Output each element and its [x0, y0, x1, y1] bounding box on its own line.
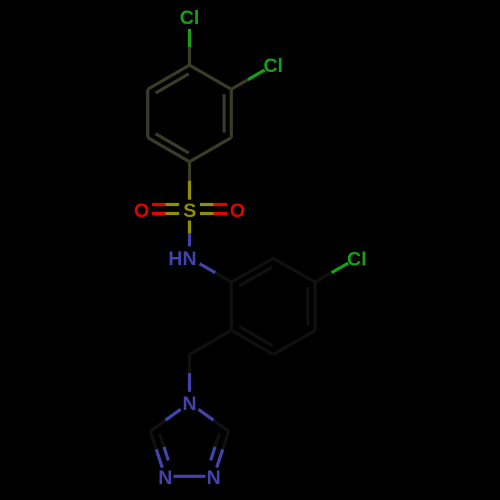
svg-text:Cl: Cl — [263, 55, 283, 77]
svg-text:N: N — [182, 393, 196, 415]
svg-text:HN: HN — [168, 248, 196, 270]
svg-text:N: N — [207, 467, 221, 489]
svg-text:N: N — [158, 467, 172, 489]
svg-text:S: S — [183, 200, 196, 222]
svg-text:Cl: Cl — [180, 7, 200, 29]
svg-text:O: O — [230, 200, 245, 222]
svg-text:O: O — [134, 200, 149, 222]
svg-text:Cl: Cl — [347, 248, 367, 270]
